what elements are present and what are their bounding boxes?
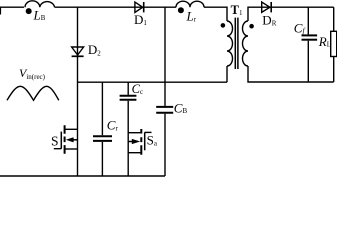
svg-text:S: S [51,134,59,149]
